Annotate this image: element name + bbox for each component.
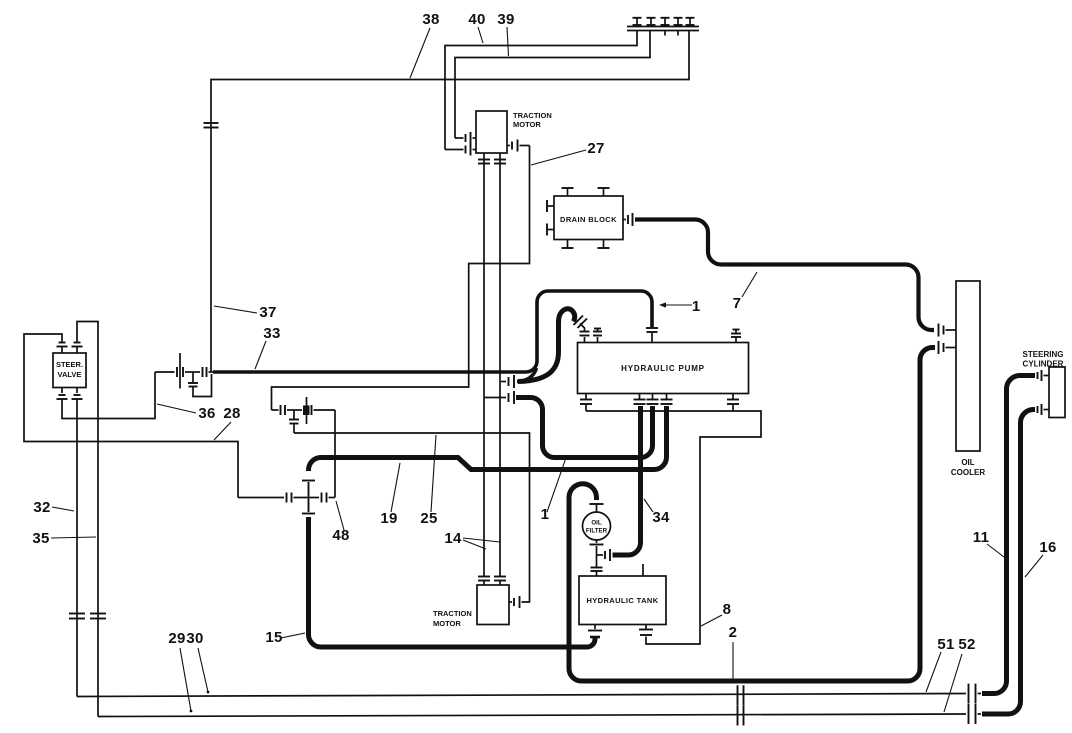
- svg-text:2: 2: [729, 624, 738, 641]
- fitting H2 (on motor line left): [484, 391, 514, 404]
- cross fitting (48 junction): [238, 482, 335, 512]
- union at bottom motor top right: [494, 577, 506, 586]
- union pump bottom port F1: [634, 394, 646, 405]
- union on wire 38: [204, 123, 219, 128]
- wire 40 (upper brake line): [445, 31, 637, 150]
- wire motor line left (14): [483, 166, 485, 576]
- I-fitting 3 on plate: [661, 18, 670, 25]
- steering cylinder label: [1023, 350, 1064, 369]
- union on wire 35: [69, 614, 85, 619]
- hydraulic tank label: [586, 596, 658, 605]
- fitting at cylinder upper port: [1038, 370, 1050, 381]
- union pump bottom left port: [580, 394, 592, 405]
- callout 19: [380, 463, 400, 527]
- wire case drain manifold (8): [586, 405, 761, 644]
- svg-text:15: 15: [265, 629, 282, 646]
- union steer valve top left: [57, 343, 68, 354]
- svg-text:OIL: OIL: [591, 520, 602, 527]
- oil cooler label: [951, 458, 985, 477]
- hose 19 (to pump port F3): [309, 406, 667, 471]
- union at bottom motor top left: [478, 577, 490, 586]
- svg-text:19: 19: [380, 510, 397, 527]
- union steer valve top right: [72, 343, 83, 354]
- callout 40: [468, 11, 485, 43]
- union below hose 19 end: [302, 481, 315, 497]
- fitting pump top port B: [593, 329, 602, 343]
- wire 25 (coupling to bottom motor): [294, 433, 530, 602]
- drain block bottom fitting 1: [562, 240, 574, 249]
- union pump bottom right port: [727, 394, 739, 405]
- wire 30 rail (upper bottom line): [77, 694, 966, 697]
- quick disconnect coupling (mid, wire 27 end): [272, 397, 336, 424]
- callout 2: [729, 624, 738, 679]
- callout 52: [944, 636, 976, 712]
- drain block left fitting 1: [547, 200, 554, 212]
- union pump bottom port F2: [647, 394, 659, 405]
- svg-text:STEERING: STEERING: [1023, 350, 1064, 359]
- drain block top fitting 1: [562, 188, 574, 196]
- svg-text:32: 32: [33, 499, 50, 516]
- svg-text:33: 33: [263, 325, 280, 342]
- svg-text:8: 8: [723, 601, 732, 618]
- svg-text:48: 48: [332, 527, 349, 544]
- callout 35: [32, 530, 96, 547]
- callout 38: [410, 11, 440, 78]
- svg-text:COOLER: COOLER: [951, 468, 985, 477]
- wire 32 (steer valve line): [77, 322, 98, 717]
- svg-text:HYDRAULIC TANK: HYDRAULIC TANK: [586, 596, 658, 605]
- svg-text:25: 25: [420, 510, 437, 527]
- steer valve box: [53, 353, 86, 388]
- fitting H1 (on motor line right): [501, 375, 514, 388]
- svg-text:51: 51: [937, 636, 954, 653]
- fitting at oil cooler lower port: [939, 341, 957, 354]
- drain block right fitting: [623, 213, 633, 226]
- fitting pump top port A (slash end): [574, 316, 590, 343]
- fitting at oil filter bottom: [590, 540, 604, 545]
- fitting at oil cooler upper port: [939, 324, 957, 337]
- callout 33: [255, 325, 281, 369]
- callout 27: [531, 140, 605, 165]
- svg-text:28: 28: [223, 405, 240, 422]
- union mid on lower rail: [738, 706, 744, 726]
- callout 32: [33, 499, 74, 516]
- drain block bottom fitting 2: [598, 240, 610, 249]
- traction motor (top) box: [476, 111, 507, 153]
- callout 36: [157, 404, 216, 422]
- svg-text:HYDRAULIC PUMP: HYDRAULIC PUMP: [621, 364, 705, 373]
- wire 39 (second brake line): [455, 31, 650, 138]
- fitting at tank bottom left port: [588, 625, 602, 638]
- wire filter to tank: [596, 546, 598, 567]
- union pump bottom port F3: [661, 394, 673, 405]
- hydraulic tank box: [579, 576, 666, 625]
- callout 29: [168, 630, 191, 711]
- svg-text:1: 1: [692, 298, 700, 315]
- union at top motor bottom right port: [494, 153, 506, 166]
- stub below plate 1: [664, 31, 666, 36]
- callout 37: [214, 304, 277, 321]
- callout 34: [644, 499, 670, 526]
- callout 11: [973, 529, 1004, 557]
- I-fitting 1 on plate: [633, 18, 642, 25]
- fitting filter drop to hose 34: [597, 549, 611, 561]
- union at tank top port: [591, 568, 603, 577]
- bulkhead fitting plate (double rail): [627, 27, 699, 31]
- hose 15 (cross fitting to tank): [309, 517, 596, 647]
- I-fitting 4 on plate: [674, 18, 683, 25]
- svg-text:11: 11: [973, 529, 989, 546]
- union mid on upper rail: [738, 685, 744, 705]
- fitting pump top port D: [731, 330, 741, 343]
- svg-text:35: 35: [32, 530, 49, 547]
- svg-text:52: 52: [958, 636, 975, 653]
- steering cylinder box: [1049, 367, 1065, 418]
- wire coupling to cross fitting: [334, 410, 336, 498]
- oil filter circle: [583, 512, 611, 540]
- drain block box: [554, 196, 623, 240]
- hose 33 (steer supply, to pump via hose 1 loop): [213, 291, 652, 372]
- hydraulic pump box: [578, 343, 749, 394]
- callout 7: [733, 272, 757, 312]
- fitting at top motor left lower port: [445, 144, 476, 156]
- steer valve label: [56, 360, 83, 379]
- hose 11 (steering cylinder upper): [982, 376, 1035, 694]
- callout 30 end dot: [207, 691, 210, 694]
- oil cooler box: [956, 281, 980, 451]
- fitting at oil filter top: [590, 504, 604, 512]
- union steer valve bottom left: [57, 388, 68, 400]
- fitting at bottom motor right port: [509, 596, 520, 608]
- hose return (oil cooler to tank loop / oil filter feed): [569, 348, 935, 682]
- quick disconnect coupling (wire 33 start): [155, 353, 213, 389]
- svg-text:TRACTION: TRACTION: [433, 609, 472, 618]
- callout 48: [332, 501, 349, 544]
- callout 1: [541, 455, 567, 523]
- tank top stub: [642, 564, 644, 576]
- oil filter label: [586, 520, 608, 535]
- callout 30: [186, 630, 208, 692]
- I-fitting 5 on plate: [686, 18, 695, 25]
- wire motor line right (14): [499, 166, 501, 576]
- svg-text:TRACTION: TRACTION: [513, 111, 552, 120]
- svg-text:27: 27: [587, 140, 604, 157]
- union at tank bottom right port: [639, 625, 653, 636]
- callout 14: [444, 530, 486, 549]
- hose 7 (drain block to oil cooler): [635, 220, 934, 331]
- wire 29 rail (lower bottom line): [98, 714, 966, 717]
- svg-text:34: 34: [652, 509, 670, 526]
- hose tail H1 merge: [517, 368, 537, 382]
- wire steer valve to coupling 36: [62, 372, 155, 419]
- svg-text:FILTER: FILTER: [586, 528, 608, 535]
- svg-text:39: 39: [497, 11, 514, 28]
- callout 39: [497, 11, 514, 56]
- callout 25: [420, 435, 437, 527]
- traction motor (bottom) label: [433, 609, 472, 628]
- union on wire 32: [90, 614, 106, 619]
- union above hose 15 end: [302, 499, 315, 514]
- callout 29 end dot: [190, 710, 193, 713]
- callout 51: [926, 636, 955, 692]
- callout 14 second leader: [463, 538, 500, 542]
- callout 1 with arrow (hose 1): [659, 298, 700, 315]
- svg-text:36: 36: [198, 405, 215, 422]
- drain block left fitting 2: [547, 224, 554, 236]
- svg-text:16: 16: [1039, 539, 1056, 556]
- union right on upper rail: [969, 684, 982, 704]
- svg-text:40: 40: [468, 11, 485, 28]
- fitting at cylinder lower port: [1038, 404, 1050, 415]
- svg-text:VALVE: VALVE: [58, 370, 82, 379]
- union steer valve bottom right: [72, 388, 83, 400]
- wire 27 (motor case drain to coupling): [272, 146, 530, 411]
- svg-text:MOTOR: MOTOR: [433, 619, 461, 628]
- callout 15: [265, 629, 305, 646]
- stub below plate 2: [677, 31, 679, 36]
- svg-text:37: 37: [259, 304, 276, 321]
- callout 8: [701, 601, 731, 626]
- hose 16 (steering cylinder lower): [982, 410, 1035, 715]
- svg-text:STEER.: STEER.: [56, 360, 83, 369]
- check valve drop on wire 33 coupling: [188, 372, 212, 397]
- check valve drop on coupling: [289, 410, 299, 433]
- svg-text:30: 30: [186, 630, 203, 647]
- svg-text:29: 29: [168, 630, 185, 647]
- drain block label: [560, 215, 617, 224]
- svg-text:DRAIN BLOCK: DRAIN BLOCK: [560, 215, 617, 224]
- fitting at top motor left upper port: [455, 132, 476, 144]
- svg-text:7: 7: [733, 295, 742, 312]
- svg-text:14: 14: [444, 530, 462, 547]
- S-hose (pump suction stub with slash): [518, 309, 575, 382]
- svg-text:CYLINDER: CYLINDER: [1023, 360, 1064, 369]
- drain block top fitting 2: [598, 188, 610, 196]
- traction motor (bottom) box: [477, 585, 509, 625]
- hose 34 (pump to oil filter): [613, 406, 641, 555]
- callout 16: [1025, 539, 1057, 577]
- union at top motor bottom left port: [478, 153, 490, 166]
- traction motor (top) label: [513, 111, 552, 129]
- callout 28: [214, 405, 241, 440]
- wire 38 (long supply line): [211, 31, 689, 372]
- svg-text:OIL: OIL: [961, 458, 974, 467]
- I-fitting 2 on plate: [647, 18, 656, 25]
- svg-text:MOTOR: MOTOR: [513, 120, 541, 129]
- hose H2 to pump port F2: [516, 398, 653, 458]
- svg-text:38: 38: [422, 11, 439, 28]
- fitting at top motor right port: [507, 140, 530, 152]
- union right on lower rail: [969, 704, 982, 724]
- wire 35 (steer valve return drop): [76, 400, 78, 697]
- hydraulic pump label: [621, 364, 705, 373]
- wire 28 (steer valve to cross fitting): [24, 334, 238, 498]
- fitting pump top port C (from hose 1): [646, 328, 658, 343]
